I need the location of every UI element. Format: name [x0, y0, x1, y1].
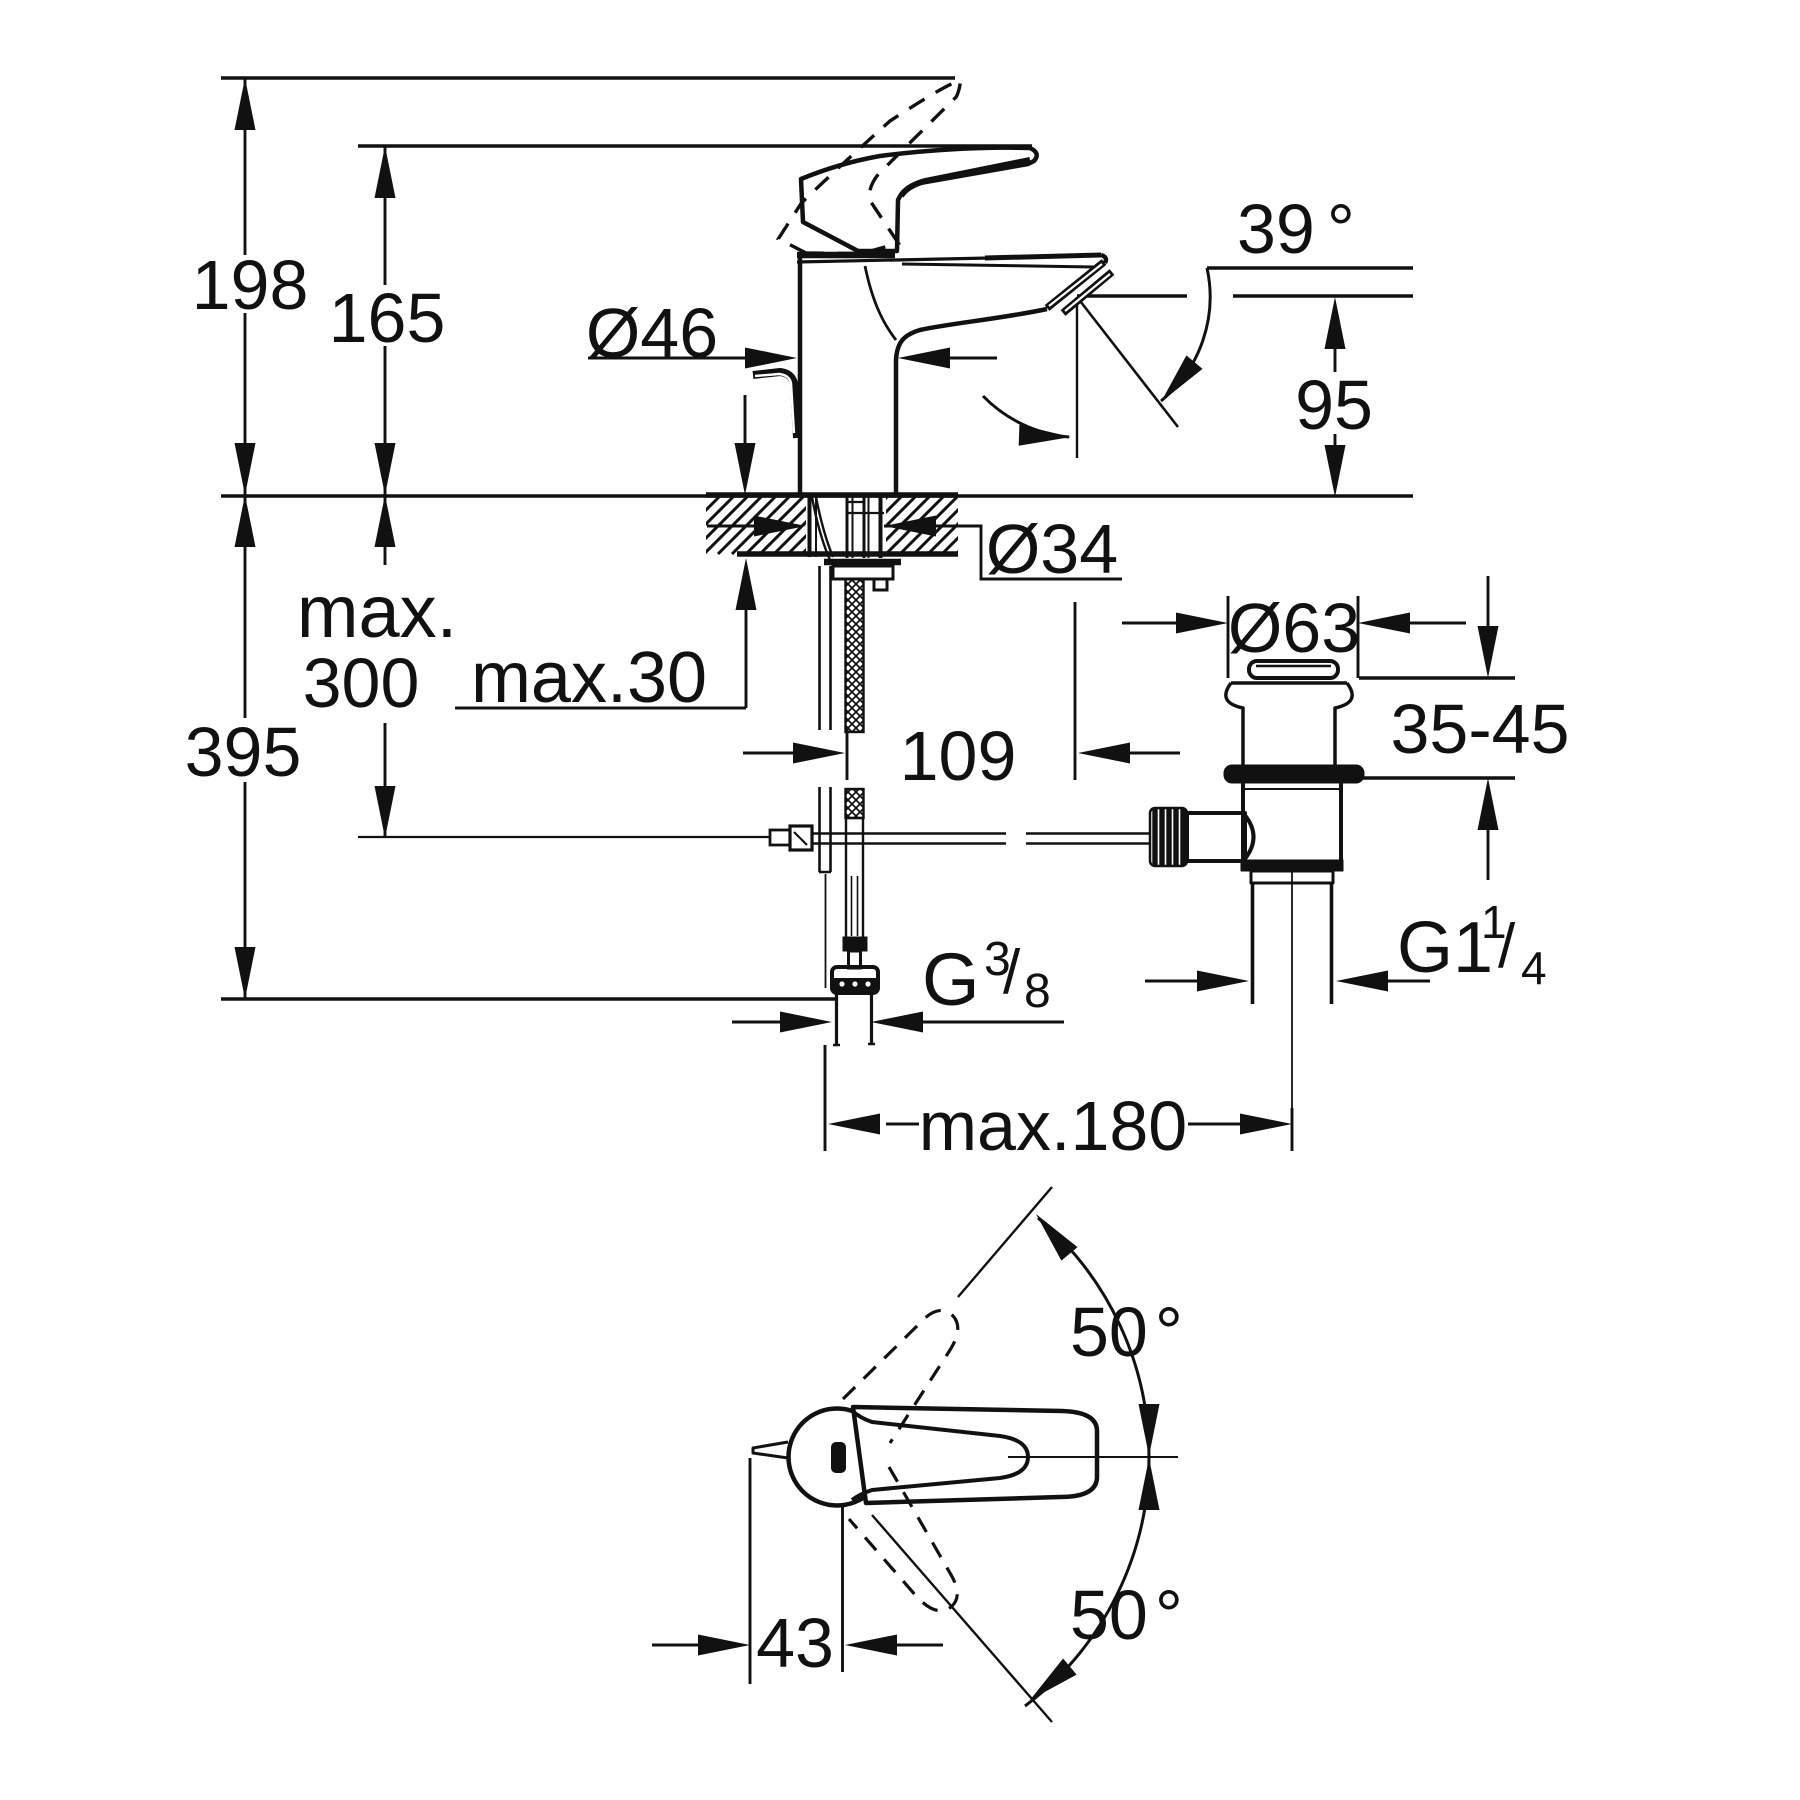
- svg-text:109: 109: [900, 717, 1017, 795]
- svg-text:max.: max.: [297, 570, 457, 653]
- svg-text:165: 165: [329, 279, 446, 357]
- svg-text:Ø63: Ø63: [1228, 589, 1360, 667]
- svg-text:35-45: 35-45: [1390, 690, 1569, 768]
- svg-text:4: 4: [1521, 942, 1547, 994]
- svg-text:395: 395: [185, 713, 302, 791]
- svg-text:Ø46: Ø46: [586, 294, 718, 372]
- svg-text:G1: G1: [1397, 908, 1493, 988]
- svg-text:43: 43: [756, 1604, 834, 1682]
- svg-text:95: 95: [1295, 366, 1373, 444]
- svg-text:39°: 39°: [1237, 190, 1355, 268]
- svg-text:/: /: [1003, 938, 1021, 1007]
- svg-text:Ø34: Ø34: [986, 510, 1118, 588]
- svg-text:max.180: max.180: [919, 1087, 1187, 1165]
- svg-text:max.30: max.30: [471, 638, 707, 718]
- svg-text:50°: 50°: [1070, 1293, 1183, 1371]
- svg-text:300: 300: [303, 644, 420, 722]
- svg-text:8: 8: [1024, 965, 1051, 1018]
- svg-text:198: 198: [192, 246, 309, 324]
- svg-text:G: G: [922, 938, 980, 1021]
- svg-text:/: /: [1498, 912, 1516, 981]
- svg-text:50°: 50°: [1070, 1576, 1183, 1654]
